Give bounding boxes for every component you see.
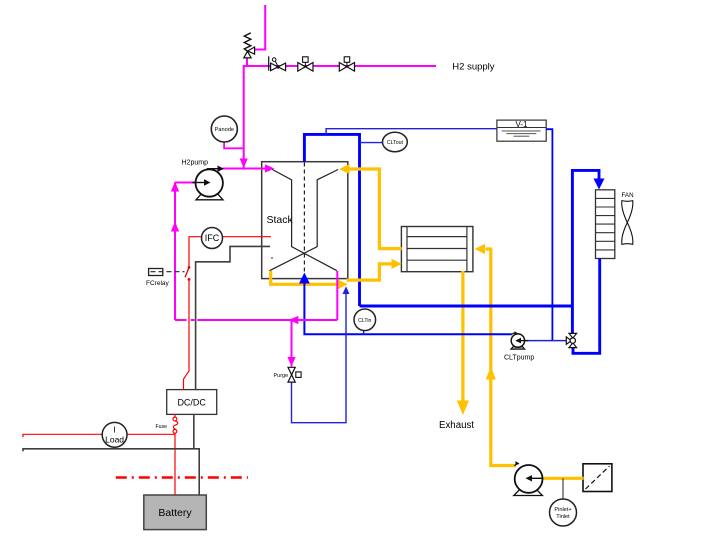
wire CLTout stub — [360, 142, 382, 144]
wire switch to DC/DC red — [184, 279, 190, 389]
wire H2 supply inlet vertical — [254, 5, 265, 50]
arrow coolant into radiator — [594, 179, 605, 190]
arrow purge return arrowhead — [289, 316, 299, 324]
wire regulator outlet stub — [246, 58, 248, 66]
wire coolant stack feed — [304, 282, 511, 334]
tank V-1 — [497, 120, 546, 141]
svg-text:Pinlet+: Pinlet+ — [554, 507, 571, 513]
filter air filter — [583, 464, 612, 492]
stack body — [262, 162, 348, 279]
svg-text:H2 supply: H2 supply — [452, 62, 494, 73]
svg-text:Stack: Stack — [267, 214, 294, 226]
wire yellow cathode supply into stack — [349, 169, 402, 249]
valve purge valve — [274, 367, 302, 382]
instrument CLTout — [383, 132, 408, 151]
arrow purge vent arrowhead — [343, 286, 350, 294]
wire yellow exhaust down — [461, 271, 464, 401]
switch blade — [185, 267, 189, 277]
wire Panode stub — [224, 142, 244, 149]
arrow purge down arrowhead — [287, 357, 295, 367]
regulator PRV valve body — [244, 47, 255, 58]
svg-text:H2pump: H2pump — [182, 160, 209, 167]
arrow yellow cathode out arrowhead — [338, 279, 348, 289]
blower air pump — [514, 461, 544, 495]
svg-text:CLTin: CLTin — [358, 318, 371, 324]
instrument I Load — [102, 422, 127, 447]
svg-text:Panode: Panode — [215, 127, 234, 133]
stack cathode channel — [270, 170, 339, 271]
wire thin blue to tank — [326, 129, 497, 135]
valve check valve with indicator — [269, 56, 286, 70]
stack anode channel — [272, 170, 337, 271]
stack membrane dashed line — [303, 163, 305, 278]
wire yellow blower discharge — [544, 477, 584, 480]
wire yellow cathode exhaust from stack — [271, 271, 338, 285]
svg-text:I: I — [113, 425, 115, 435]
svg-text:CLTpump: CLTpump — [504, 355, 534, 362]
wire purge vent line — [292, 294, 347, 423]
wire purge return horizontal — [175, 319, 187, 321]
svg-text:IFC: IFC — [205, 233, 220, 243]
wire anode outlet from stack — [336, 271, 338, 320]
wire H2 supply main header — [244, 65, 436, 67]
coolant riser to radiator — [572, 170, 599, 306]
radiator — [596, 190, 615, 259]
humidifier heat exchanger — [401, 227, 473, 272]
wire stack anode inlet — [223, 168, 267, 170]
coolant main horizontal — [360, 305, 573, 308]
wire CLTin stub — [363, 330, 365, 334]
svg-text:V-1: V-1 — [515, 120, 528, 129]
regulator PRV spring — [244, 33, 251, 51]
wire H2 down to stack inlet — [243, 65, 245, 169]
svg-text:FAN: FAN — [622, 192, 634, 199]
switch contact dot upper — [188, 266, 191, 269]
wire gray bus stack positive — [196, 246, 270, 389]
arrow recirc arrowhead upper — [171, 182, 179, 192]
instrument CLTin — [354, 309, 376, 331]
instrument Panode — [211, 116, 237, 142]
arrow H2 down arrowhead — [240, 159, 248, 169]
svg-text:Purge: Purge — [274, 373, 289, 379]
svg-text:Battery: Battery — [158, 507, 192, 519]
wire red load line — [23, 434, 175, 437]
wire valve top branch — [571, 306, 574, 333]
wire yellow air from blower to humidifier — [486, 249, 517, 466]
pump H2pump — [182, 160, 225, 200]
wire gray DC/DC to bus — [193, 414, 195, 449]
wire anode recirculation to pump — [175, 182, 196, 184]
wire purge branch down — [291, 320, 293, 367]
pump CLTpump — [504, 331, 534, 361]
wire IFC left red — [189, 237, 201, 267]
svg-text:CLTout: CLTout — [387, 140, 404, 146]
wire IFC to stack red — [223, 236, 271, 238]
wire yellow jog to humidifier — [347, 264, 393, 280]
junction stray dot — [271, 257, 273, 259]
switch contact dot lower — [188, 278, 191, 281]
svg-text:Load: Load — [105, 435, 124, 445]
ground isolation dash-dot line — [116, 476, 248, 479]
svg-text:Exhaust: Exhaust — [439, 420, 474, 431]
fuse Fuse coil — [156, 414, 178, 434]
arrow yellow into stack top — [339, 164, 349, 174]
converter DC/DC — [167, 390, 217, 415]
instrument IFC — [202, 228, 223, 249]
arrow yellow air up arrowhead — [486, 367, 496, 380]
wire CLT pump to valve — [525, 340, 567, 342]
coolant loop thick blue stack top — [304, 134, 359, 306]
wire radiator outlet — [573, 259, 600, 354]
fan FAN — [622, 192, 634, 244]
arrow exhaust big arrowhead — [457, 401, 469, 416]
valve solenoid valve 1 — [298, 57, 313, 71]
battery Battery — [144, 495, 207, 530]
arrow recirc arrowhead lower — [171, 222, 179, 232]
arrow coolant into stack bottom — [299, 273, 310, 284]
arrow yellow into humidifier right — [475, 244, 485, 254]
wire red battery drop — [174, 434, 176, 495]
svg-text:FCrelay: FCrelay — [146, 280, 170, 287]
wire gray bottom bus — [23, 449, 199, 495]
valve solenoid valve 2 — [339, 57, 354, 71]
wire coolant tank connection — [546, 129, 552, 340]
valve thermostat 3-way — [566, 333, 576, 347]
svg-text:Tinlet: Tinlet — [556, 514, 570, 520]
arrow anode inlet arrowhead — [265, 164, 275, 172]
svg-text:Fuse: Fuse — [156, 424, 168, 430]
arrow yellow into humidifier left — [392, 259, 402, 269]
instrument Pinlet Tinlet — [550, 478, 577, 526]
relay FCrelay box — [149, 269, 163, 276]
wire anode recirculation riser — [174, 183, 176, 321]
relay FCrelay dashed control line — [151, 271, 185, 273]
svg-text:DC/DC: DC/DC — [177, 398, 206, 408]
